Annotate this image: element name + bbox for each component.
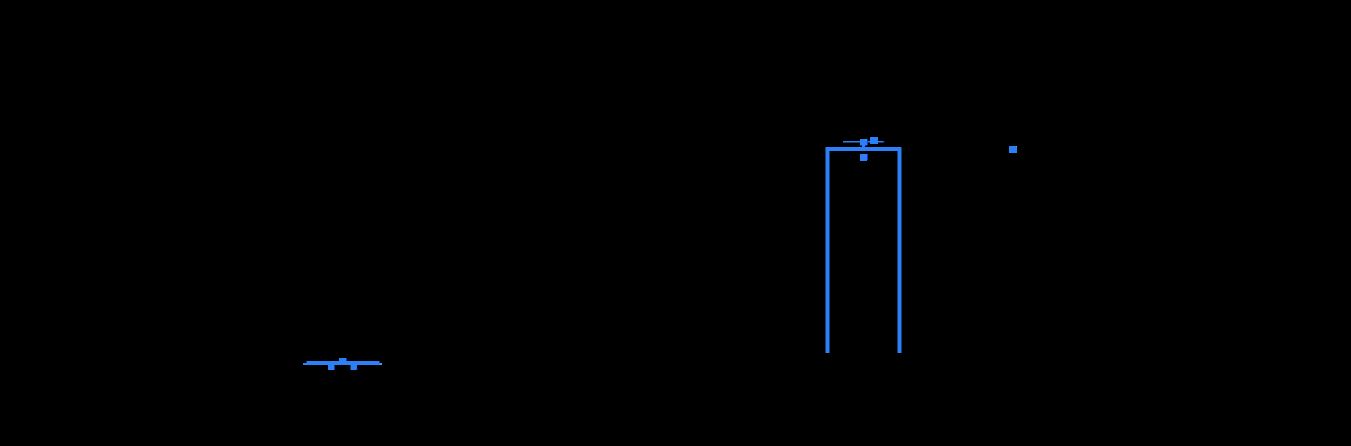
component U1 body (pad above wire) <box>339 358 347 362</box>
node A top-right marker (cyan pixel) <box>1016 146 1017 147</box>
wire end cap (dark blue) <box>883 141 885 143</box>
wire (lower horizontal segment, left circuit) <box>303 363 382 365</box>
R1 right edge fringe (dark blue) <box>867 140 868 146</box>
enclosure box top side <box>825 147 901 151</box>
R1 top-right marker (green pixel) <box>865 139 866 140</box>
wire (upper horizontal segment, left circuit) <box>306 361 379 363</box>
enclosure box right side <box>897 147 901 353</box>
terminal pad right edge fringe (dark blue) <box>867 154 868 160</box>
pin 2 pad (below wire, right) <box>350 365 357 370</box>
resistor R2 body (square on wire, right) <box>870 137 878 144</box>
enclosure box left side <box>825 147 829 353</box>
pin 1 pad (below wire, left) <box>328 365 335 370</box>
pin 1 pad bottom-right fringe (dark blue) <box>334 369 335 370</box>
wire (stem from R1 into box top) <box>862 146 865 148</box>
terminal pad inside box <box>860 154 867 161</box>
wire (lower segment light tail, right end) <box>379 363 382 365</box>
wire (thin horizontal above box) <box>843 141 883 143</box>
resistor R1 body (square on wire) <box>860 139 867 146</box>
U1 body top-right fringe (dark blue) <box>346 358 347 359</box>
pin 2 pad bottom-right fringe (dark blue) <box>356 369 357 370</box>
node A (junction square, right) <box>1009 146 1017 153</box>
